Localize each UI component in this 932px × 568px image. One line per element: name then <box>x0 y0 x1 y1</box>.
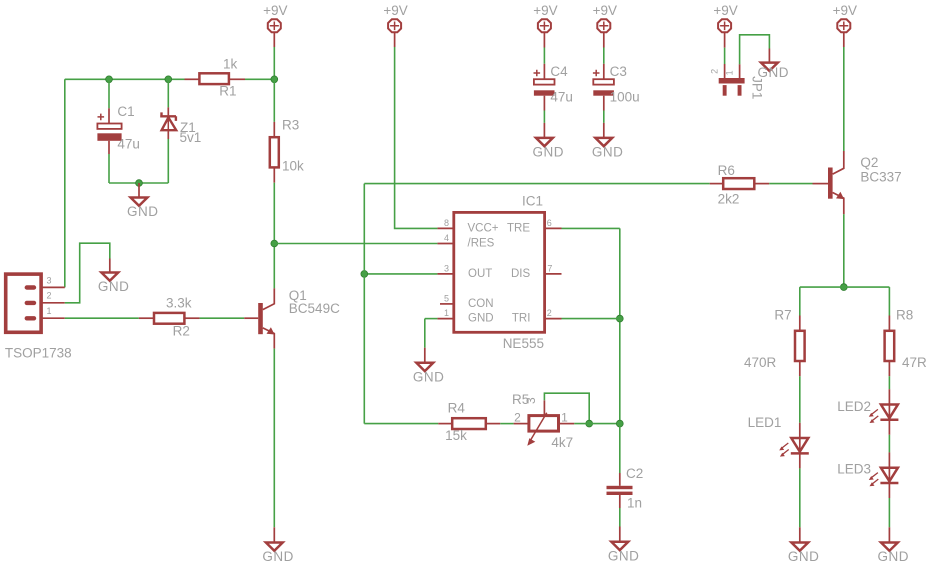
wire C2 bottom net <box>619 508 621 527</box>
svg-text:4: 4 <box>444 233 449 243</box>
transistor Q1 emitter <box>263 328 275 349</box>
GND pin (C3) <box>603 123 605 138</box>
svg-text:/RES: /RES <box>468 238 495 250</box>
ground symbol (JP1) <box>761 63 778 71</box>
svg-text:TSOP1738: TSOP1738 <box>5 345 72 360</box>
GND pin (TSOP) <box>109 259 111 273</box>
wire R5 wiper net <box>544 393 589 423</box>
svg-text:C2: C2 <box>626 466 643 481</box>
wire IC1 GND drop <box>424 319 426 348</box>
wire TSOP pin1 to R2 net <box>65 317 139 319</box>
svg-text:2: 2 <box>514 411 521 425</box>
wire LED1 to ground net <box>799 468 801 527</box>
connector pin head 3 <box>25 285 37 289</box>
power +9V symbol (C4) <box>538 19 551 32</box>
svg-text:5v1: 5v1 <box>180 130 202 145</box>
zener diode Z1 pin through symbol <box>167 115 169 131</box>
junction node C1/Z1 gnd <box>136 180 143 187</box>
svg-text:GND: GND <box>592 145 624 160</box>
junction node Q2 emitter/LED rail <box>840 284 847 291</box>
wire rail to R8 <box>888 287 890 315</box>
svg-text:47R: 47R <box>902 355 927 370</box>
svg-text:Q2: Q2 <box>860 155 878 170</box>
pin stub of +9V C3 symbol <box>603 33 605 48</box>
Z1 anode pin <box>167 131 169 139</box>
LED2 anode pin <box>888 389 890 404</box>
svg-text:4k7: 4k7 <box>551 435 573 450</box>
pin stub of +9V JP1 symbol <box>724 33 726 48</box>
wire C2 top net <box>619 424 621 473</box>
wire +9V to Q2 collector net <box>843 47 845 151</box>
wire rail to R7 <box>799 287 801 315</box>
ground symbol (C3) <box>595 138 612 146</box>
resistor R3 <box>270 137 279 167</box>
wire R2 to Q1 base net <box>200 317 245 319</box>
svg-text:GND: GND <box>468 313 494 325</box>
wire Z1 bottom net <box>167 139 169 183</box>
IC1 pin 6 stub <box>545 227 562 229</box>
LED1 anode pin <box>799 423 801 438</box>
connector TSOP1738 body <box>6 274 41 332</box>
svg-text:3: 3 <box>524 397 538 404</box>
wire +9V drop to rail <box>273 47 275 79</box>
R6 right pin <box>754 183 769 185</box>
junction node rail/Z1 <box>165 76 172 83</box>
GND pin (IC1) <box>424 348 426 363</box>
IC1 pin 4 stub <box>437 243 453 245</box>
wire +9V rail left segment to R1 <box>65 78 185 80</box>
wire C3 top net <box>603 48 605 64</box>
svg-text:LED2: LED2 <box>837 399 871 414</box>
svg-text:GND: GND <box>788 549 820 564</box>
junction node TRI <box>616 315 623 322</box>
power +9V symbol (JP1) <box>718 19 731 32</box>
svg-text:100u: 100u <box>610 89 640 104</box>
svg-text:1: 1 <box>47 306 52 316</box>
power +9V symbol (IC1 VCC) <box>388 19 401 32</box>
svg-text:1: 1 <box>561 411 568 425</box>
R2 right pin <box>184 317 199 319</box>
wire C4 top net <box>543 48 545 64</box>
wire Z1 top net <box>167 79 169 107</box>
wire R7 to LED1 net <box>799 376 801 423</box>
capacitor C3 plus sign <box>593 70 600 77</box>
JP1 pin 1 stub <box>739 64 741 78</box>
transistor Q2 base bar <box>828 168 833 199</box>
IC1 pin 2 stub <box>545 318 562 320</box>
R6 left pin <box>710 183 724 185</box>
junction node rail/R1/R3 <box>271 76 278 83</box>
GND pin (LED3) <box>888 527 890 542</box>
R4 left pin <box>438 423 452 425</box>
transistor Q2 emitter arrow <box>836 192 844 199</box>
capacitor C3 positive plate <box>593 79 614 84</box>
wire C1-Z1 ground net <box>109 182 168 184</box>
svg-text:OUT: OUT <box>468 268 492 280</box>
R4 right pin <box>485 423 500 425</box>
junction node C2 <box>616 420 623 427</box>
resistor R8 <box>885 331 895 361</box>
R3 bottom pin <box>273 168 275 183</box>
svg-text:R7: R7 <box>774 308 791 323</box>
R7 top pin <box>799 316 801 331</box>
svg-text:C3: C3 <box>610 64 627 79</box>
svg-text:GND: GND <box>127 204 159 219</box>
wire Q1 emitter to ground net <box>273 349 275 528</box>
svg-text:+9V: +9V <box>713 3 737 18</box>
R1 right pin <box>230 78 246 80</box>
pin stub of +9V C4 symbol <box>543 33 545 48</box>
wire TSOP pin2 ground net <box>65 243 110 303</box>
capacitor C4 positive plate <box>534 79 555 84</box>
junction node R3/Q1/RES <box>271 240 278 247</box>
wire R6 to Q2 base net <box>769 183 812 185</box>
JP1 pin 2 stub <box>724 64 726 78</box>
pin stub of +9V IC1 symbol <box>394 33 396 47</box>
GND pin (LED1) <box>799 527 801 542</box>
svg-text:C1: C1 <box>117 104 134 119</box>
LED LED3 arrows <box>871 473 879 485</box>
pin stub of +9V Q2 symbol <box>843 33 845 47</box>
capacitor C1 negative plate <box>97 133 121 141</box>
zener diode Z1 cathode bar <box>160 112 176 121</box>
svg-text:R3: R3 <box>282 118 299 133</box>
connector pin head 1 <box>25 316 37 320</box>
svg-text:+9V: +9V <box>263 3 287 18</box>
svg-text:10k: 10k <box>282 158 304 173</box>
R1 left pin <box>185 78 200 80</box>
C1 positive pin <box>108 108 110 123</box>
wire TRI net <box>562 318 620 320</box>
svg-text:1n: 1n <box>627 496 642 511</box>
svg-text:7: 7 <box>547 264 552 274</box>
power +9V symbol (C3) <box>597 19 610 32</box>
junction node rail/C1 <box>106 76 113 83</box>
svg-text:2: 2 <box>47 291 52 301</box>
svg-text:CON: CON <box>468 298 494 310</box>
IC1 pin 5 stub <box>440 303 454 305</box>
LED2 pin through symbol <box>888 405 890 420</box>
jumper JP1 body bar <box>719 78 745 84</box>
svg-text:R4: R4 <box>448 401 466 416</box>
wire R3 to Q1 collector net <box>273 183 275 289</box>
svg-text:+9V: +9V <box>533 3 557 18</box>
connector pin head 2 <box>25 301 37 305</box>
capacitor C2 plate 1 <box>607 486 633 489</box>
ground symbol (C1/Z1) <box>131 198 148 206</box>
svg-text:TRE: TRE <box>507 222 530 234</box>
LED3 anode pin <box>888 452 890 467</box>
svg-text:LED3: LED3 <box>837 462 871 477</box>
R5 pin 3 stub <box>543 400 545 415</box>
Z1 cathode pin <box>167 107 169 115</box>
LED LED2 <box>880 405 898 420</box>
R5 pin 1 stub <box>559 423 574 425</box>
svg-text:470R: 470R <box>744 355 777 370</box>
C3 negative pin <box>603 96 605 111</box>
wire R5 to C2 node net <box>574 423 620 425</box>
ground symbol (C2) <box>611 542 628 550</box>
resistor R2 <box>154 313 184 324</box>
svg-text:47u: 47u <box>550 89 573 104</box>
R2 left pin <box>139 317 154 319</box>
junction node OUT <box>361 271 368 278</box>
wire R4 to R5 net <box>500 423 513 425</box>
capacitor C2 plate 2 <box>607 492 633 495</box>
capacitor C1 positive plate <box>97 124 121 129</box>
Q2 base pin <box>813 183 829 185</box>
C4 positive pin <box>543 64 545 79</box>
wire OUT net to node <box>364 273 437 275</box>
svg-text:R6: R6 <box>718 163 735 178</box>
ground symbol (LED3) <box>881 543 898 551</box>
C4 negative pin <box>543 96 545 111</box>
svg-text:GND: GND <box>262 549 294 564</box>
svg-text:IC1: IC1 <box>522 194 543 209</box>
wire Q2 emitter net <box>843 214 845 287</box>
svg-text:GND: GND <box>608 548 640 563</box>
LED LED1 <box>791 438 809 453</box>
op-amp timer IC1 NE555 body <box>454 212 545 332</box>
ground symbol (Q1) <box>266 543 283 551</box>
svg-text:R8: R8 <box>896 308 913 323</box>
C2 pin bottom <box>619 495 621 508</box>
svg-text:1: 1 <box>724 70 734 75</box>
zener diode Z1 anode triangle <box>162 117 177 130</box>
capacitor C3 negative plate <box>593 90 614 95</box>
R8 bottom pin <box>888 361 890 376</box>
IC1 pin 3 stub <box>437 273 453 275</box>
capacitor C1 plus sign <box>98 114 105 121</box>
ground symbol (C4) <box>536 138 553 146</box>
svg-text:TRI: TRI <box>512 313 531 325</box>
svg-text:NE555: NE555 <box>503 336 544 351</box>
svg-text:BC549C: BC549C <box>289 301 340 316</box>
svg-text:2k2: 2k2 <box>718 192 740 207</box>
LED LED2 arrows <box>871 409 879 421</box>
LED3 pin through symbol <box>888 468 890 483</box>
transistor Q1 emitter arrow <box>267 327 275 334</box>
svg-text:GND: GND <box>413 369 445 384</box>
svg-text:LED1: LED1 <box>748 415 782 430</box>
svg-text:GND: GND <box>877 549 909 564</box>
IC1 pin 8 stub <box>437 227 453 229</box>
wire feedback to R4 net <box>364 423 438 425</box>
transistor Q2 emitter <box>833 193 844 215</box>
GND pin (C2) <box>619 527 621 542</box>
potentiometer R5 wiper arrow <box>531 413 547 440</box>
svg-text:R2: R2 <box>173 324 190 339</box>
wire C3 bottom net <box>603 111 605 123</box>
resistor R6 <box>723 178 754 189</box>
R8 top pin <box>888 316 890 331</box>
svg-text:VCC+: VCC+ <box>468 222 499 234</box>
svg-text:JP1: JP1 <box>749 76 764 99</box>
capacitor C4 plus sign <box>534 70 541 77</box>
svg-text:+9V: +9V <box>383 3 407 18</box>
Q1 base pin <box>244 317 258 319</box>
svg-text:C4: C4 <box>550 64 568 79</box>
IC1 pin 7 stub <box>545 273 562 275</box>
transistor Q1 base bar <box>258 303 263 334</box>
svg-text:1k: 1k <box>223 57 238 72</box>
svg-text:BC337: BC337 <box>860 170 901 185</box>
IC1 pin 1 stub <box>437 318 453 320</box>
TSOP pin 1 stub <box>41 317 65 319</box>
ground symbol (TSOP) <box>101 273 118 281</box>
potentiometer R5 <box>529 416 559 432</box>
svg-text:8: 8 <box>444 218 449 228</box>
GND pin (JP1) <box>768 49 770 63</box>
wire rail to R3 <box>273 79 275 122</box>
resistor R1 <box>199 73 229 84</box>
TSOP pin 2 stub <box>41 302 65 304</box>
wire JP1 pin1 to ground net <box>740 35 770 64</box>
power +9V symbol (R1/R3 rail) <box>268 19 281 32</box>
wire LED branch rail <box>800 286 890 288</box>
LED1 pin through symbol <box>799 438 801 453</box>
wire TRE net <box>562 227 620 229</box>
wire OUT to R6 net <box>364 183 709 185</box>
resistor R7 <box>795 331 805 361</box>
wire +9V rail R1 to R3 node <box>245 78 274 80</box>
LED LED3 <box>880 468 898 483</box>
svg-text:R1: R1 <box>219 84 236 99</box>
R5 pin 2 stub <box>514 423 529 425</box>
wire rail drop to TSOP1738 pin 3 <box>64 79 66 287</box>
TSOP pin 3 stub <box>41 286 65 288</box>
jumper JP1 pin head 1 <box>738 85 742 96</box>
C3 positive pin <box>603 64 605 79</box>
capacitor C4 negative plate <box>534 90 555 95</box>
wire +9V to JP1 pin2 net <box>724 48 726 64</box>
R3 top pin <box>273 122 275 137</box>
wire R8 to LED2 net <box>888 376 890 389</box>
svg-text:6: 6 <box>547 218 552 228</box>
svg-text:GND: GND <box>98 279 130 294</box>
wire IC1 GND pin net <box>425 318 438 320</box>
svg-text:3: 3 <box>444 264 449 274</box>
transistor Q1 collector <box>263 288 275 309</box>
LED LED1 arrows <box>781 443 789 455</box>
pin stub of +9V rail symbol <box>273 33 275 47</box>
LED2 cathode pin <box>888 420 890 435</box>
wire OUT feedback vertical net <box>363 184 365 424</box>
LED3 cathode pin <box>888 483 890 498</box>
transistor Q2 collector <box>833 151 844 174</box>
svg-text:+9V: +9V <box>593 3 617 18</box>
svg-text:DIS: DIS <box>511 268 531 280</box>
svg-text:1: 1 <box>444 308 449 318</box>
R7 bottom pin <box>799 361 801 376</box>
wire LED3 to ground net <box>888 498 890 527</box>
wire +9V to IC1 VCC net <box>395 47 438 228</box>
svg-text:3: 3 <box>47 275 52 285</box>
jumper JP1 pin head 2 <box>723 85 727 96</box>
ground symbol (LED1) <box>791 543 808 551</box>
svg-text:47u: 47u <box>117 136 140 151</box>
svg-text:GND: GND <box>532 145 564 160</box>
svg-text:15k: 15k <box>445 428 467 443</box>
power +9V symbol (Q2 collector) <box>837 19 850 32</box>
wire TRE/TRI vertical net <box>619 228 621 423</box>
wire C1 bottom net <box>108 154 110 183</box>
svg-text:+9V: +9V <box>833 3 857 18</box>
wire LED2 to LED3 net <box>888 435 890 453</box>
GND pin (Q1) <box>273 527 275 542</box>
wire R3 node to /RES net <box>274 243 437 245</box>
svg-text:2: 2 <box>547 308 552 318</box>
svg-text:2: 2 <box>710 69 720 74</box>
C2 pin top <box>619 473 621 486</box>
junction node R5 wiper <box>586 420 593 427</box>
wire C1 top net <box>108 79 110 108</box>
LED1 cathode pin <box>799 453 801 468</box>
wire C4 bottom net <box>543 111 545 123</box>
ground symbol (IC1) <box>416 363 433 371</box>
svg-text:3.3k: 3.3k <box>166 296 192 311</box>
C1 negative pin <box>108 141 110 154</box>
svg-text:5: 5 <box>444 294 449 304</box>
GND pin (C4) <box>543 123 545 138</box>
GND pin (C1/Z1) <box>138 183 140 198</box>
resistor R4 <box>452 418 486 429</box>
